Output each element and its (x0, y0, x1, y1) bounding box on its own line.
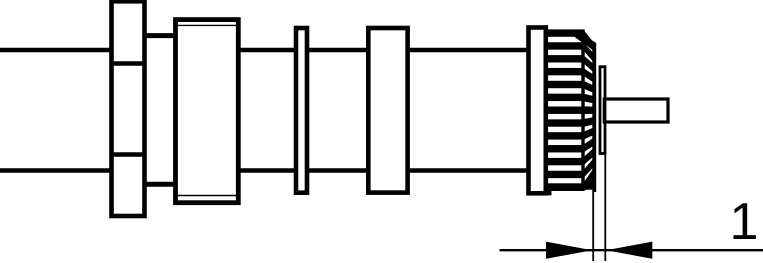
shaft upper line washer-spacer (307, 48, 368, 53)
cable lower line (0, 168, 113, 173)
shaft lower line body-washer (238, 168, 296, 173)
extension line right (604, 155, 606, 262)
dimension arrow left (546, 242, 592, 259)
cable upper line (0, 48, 113, 53)
shaft lower line washer-spacer (307, 168, 368, 173)
collar ring (529, 28, 546, 194)
spacer cylinder (368, 28, 407, 193)
knurl bottom-left step (546, 189, 552, 195)
hex nut body (112, 1, 145, 216)
svg-text:1: 1 (730, 193, 759, 251)
knurl right edge (593, 43, 596, 192)
hex nut lower flat line (110, 152, 147, 157)
knurl chamfer bands (583, 29, 595, 191)
dimension arrow right (606, 242, 652, 259)
step upper line (145, 33, 176, 38)
knurl top chamfer edge (575, 29, 597, 50)
knurl face edge line (581, 29, 584, 190)
body bottom chamfer line (178, 195, 236, 197)
body top chamfer line (178, 24, 236, 26)
shaft upper line body-washer (238, 48, 296, 53)
shaft upper line spacer-collar (408, 48, 529, 53)
hex nut upper flat line (110, 61, 147, 66)
contact ring (600, 67, 605, 154)
dimension line (500, 249, 763, 251)
step lower line (145, 182, 176, 187)
extension line left (592, 46, 594, 261)
knurled nut (545, 29, 596, 195)
main body cylinder (176, 20, 239, 203)
knurl ridge bars (546, 29, 585, 191)
shaft lower line spacer-collar (408, 168, 529, 173)
knurl bottom edge (545, 183, 595, 189)
center pin (604, 99, 668, 122)
washer disc (296, 28, 307, 193)
